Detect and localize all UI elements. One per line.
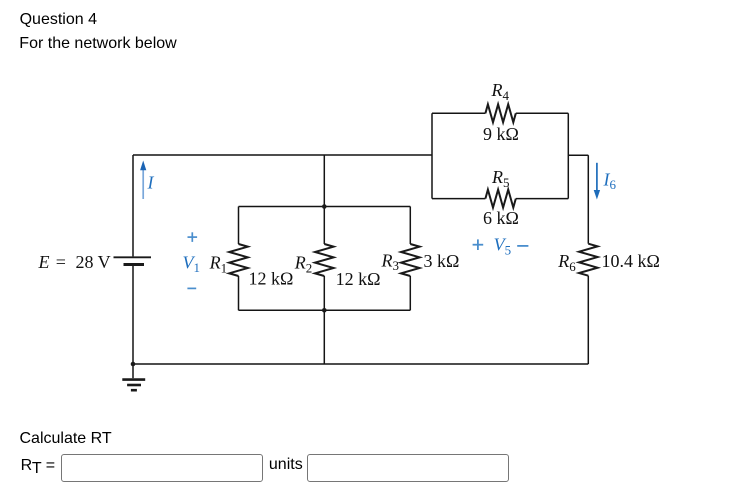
svg-text:R1: R1 — [209, 253, 228, 276]
svg-text:12 kΩ: 12 kΩ — [336, 269, 381, 289]
svg-text:V5: V5 — [494, 235, 512, 258]
svg-text:R5: R5 — [491, 167, 510, 190]
svg-text:3 kΩ: 3 kΩ — [424, 251, 460, 271]
svg-text:I: I — [147, 173, 155, 193]
svg-text:10.4 kΩ: 10.4 kΩ — [602, 251, 660, 271]
svg-text:V1: V1 — [183, 252, 201, 275]
svg-text:6 kΩ: 6 kΩ — [483, 208, 519, 228]
svg-text:R4: R4 — [491, 80, 510, 103]
svg-text:R2: R2 — [294, 253, 313, 276]
svg-text:E=28 V: E=28 V — [38, 252, 111, 272]
svg-text:12 kΩ: 12 kΩ — [249, 269, 294, 289]
svg-text:R6: R6 — [557, 251, 576, 274]
svg-text:I6: I6 — [603, 169, 617, 192]
svg-text:R3: R3 — [381, 250, 400, 273]
svg-text:9 kΩ: 9 kΩ — [483, 124, 519, 144]
